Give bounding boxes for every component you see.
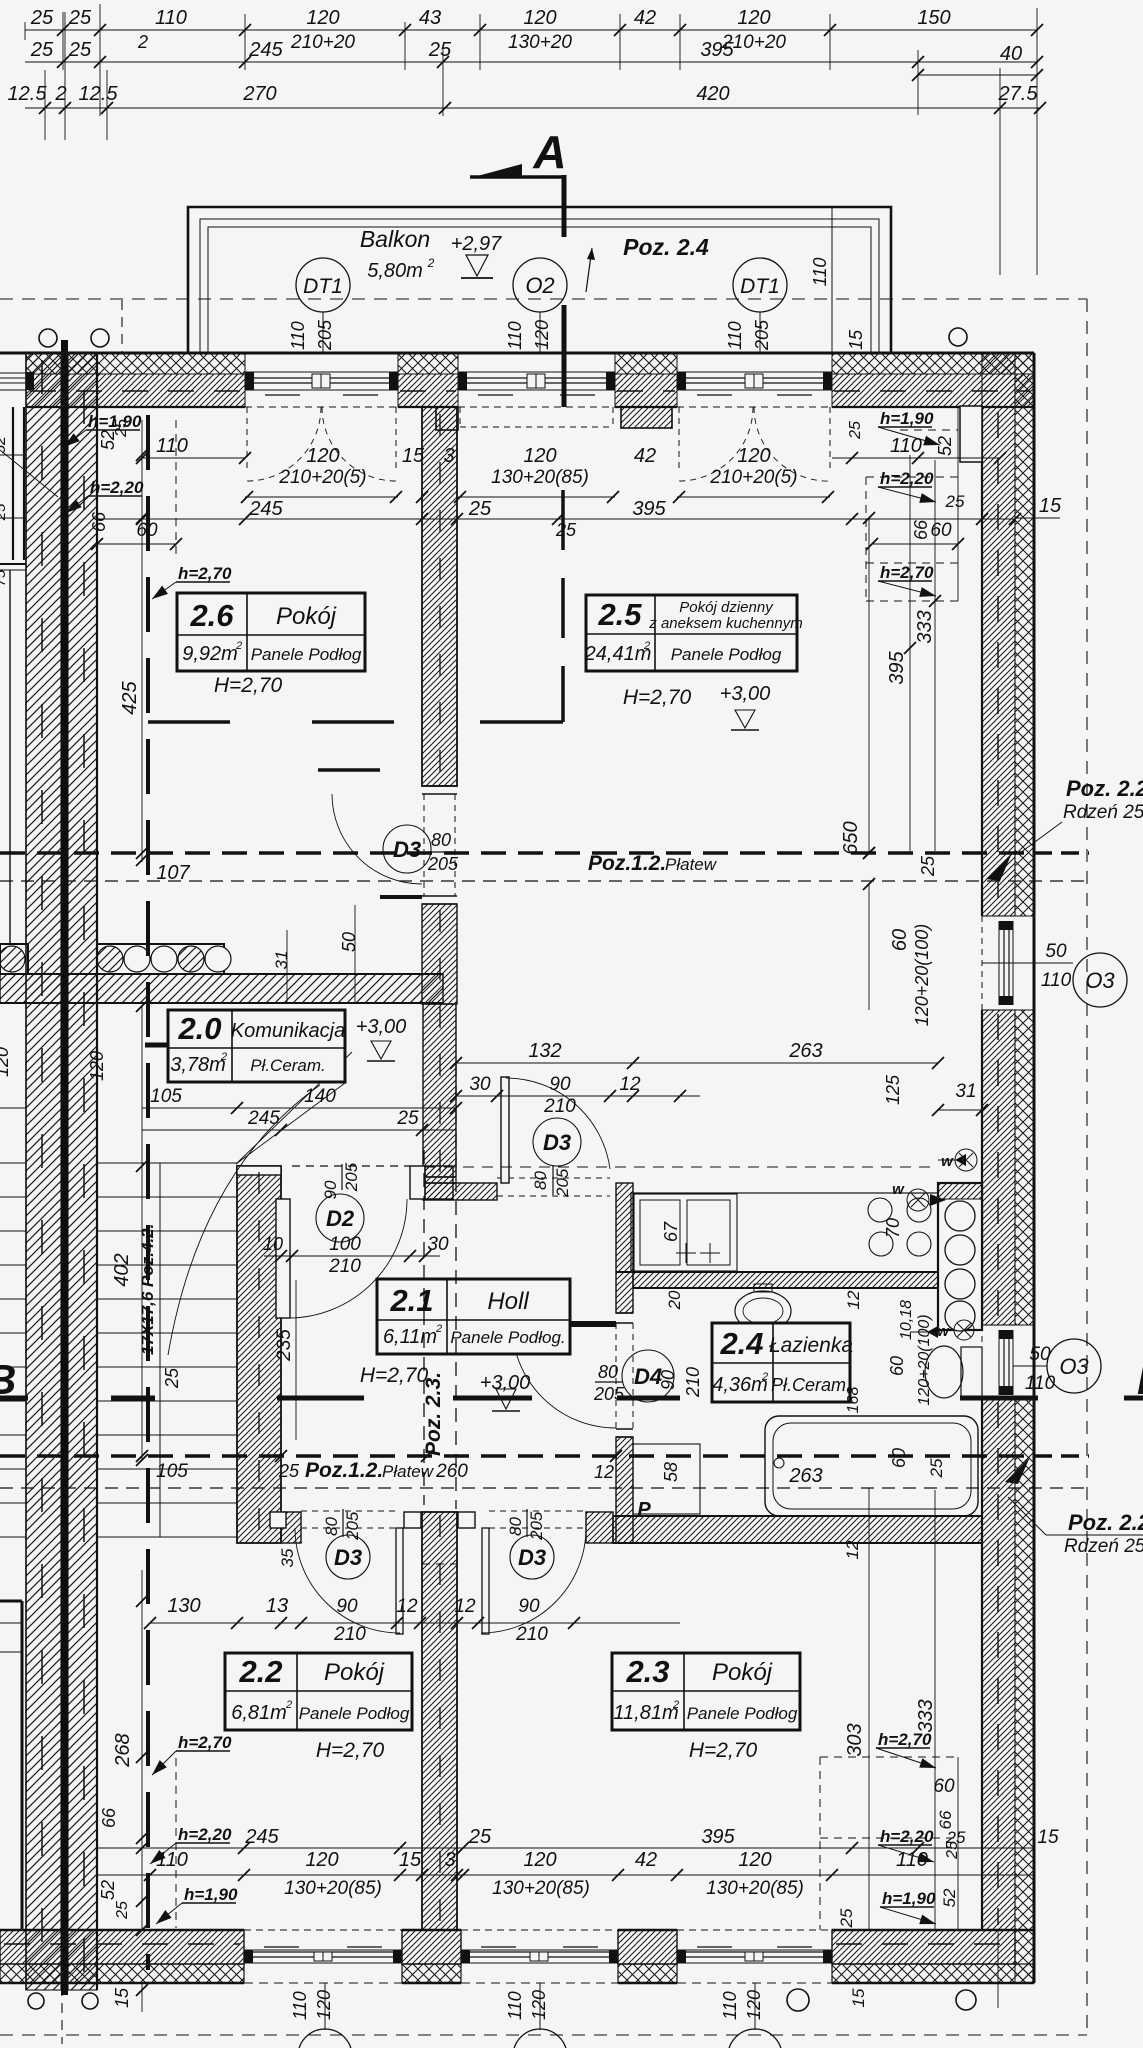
svg-text:210: 210 bbox=[683, 1367, 703, 1398]
svg-text:15: 15 bbox=[1037, 1827, 1059, 1848]
svg-text:130+20(85): 130+20(85) bbox=[491, 467, 589, 488]
svg-text:H=2,70: H=2,70 bbox=[214, 674, 283, 697]
svg-text:h=1,90: h=1,90 bbox=[882, 1889, 936, 1908]
svg-text:+2,97: +2,97 bbox=[451, 233, 502, 255]
window O3 lower symbol bbox=[998, 1330, 1000, 1395]
right dim line 650 bbox=[868, 518, 870, 853]
svg-text:2.2: 2.2 bbox=[238, 1654, 282, 1689]
svg-text:12: 12 bbox=[844, 1290, 863, 1309]
party wall left hatch bbox=[26, 352, 61, 1990]
beam Poz.2.3 dashed lines vertical bbox=[423, 1150, 425, 1505]
svg-text:12.5: 12.5 bbox=[79, 83, 119, 105]
dim row 30 90 12 bbox=[456, 1095, 700, 1097]
right dim line 333 bbox=[934, 460, 936, 851]
svg-text:Poz.1.2.: Poz.1.2. bbox=[588, 852, 666, 875]
svg-text:B: B bbox=[1137, 1356, 1143, 1403]
svg-text:w: w bbox=[892, 1181, 905, 1198]
svg-text:15: 15 bbox=[399, 1849, 422, 1871]
svg-text:h=1,90: h=1,90 bbox=[184, 1885, 238, 1904]
washbasin bbox=[735, 1291, 791, 1331]
svg-text:67: 67 bbox=[661, 1221, 681, 1242]
svg-text:13: 13 bbox=[266, 1595, 288, 1617]
svg-text:Balkon: Balkon bbox=[360, 226, 430, 252]
svg-text:80: 80 bbox=[531, 1171, 550, 1190]
svg-text:90: 90 bbox=[549, 1074, 571, 1095]
svg-text:140: 140 bbox=[304, 1086, 336, 1107]
top dimension extension lines bbox=[62, 12, 64, 70]
window symbol circle DT1 right bbox=[733, 258, 787, 312]
svg-text:Płatew: Płatew bbox=[665, 855, 718, 874]
svg-text:245: 245 bbox=[248, 39, 283, 61]
window DT1 left in top wall bbox=[245, 371, 398, 373]
svg-text:395: 395 bbox=[701, 1826, 735, 1848]
svg-text:D3: D3 bbox=[393, 837, 421, 862]
door D3 to 2.2 opening dashed bbox=[301, 1510, 397, 1512]
svg-text:110: 110 bbox=[156, 435, 188, 457]
svg-text:Pokój: Pokój bbox=[324, 1659, 385, 1686]
neighbour wall face top bbox=[12, 407, 14, 560]
svg-text:205: 205 bbox=[315, 319, 335, 351]
svg-text:2: 2 bbox=[137, 32, 148, 52]
svg-text:132: 132 bbox=[528, 1040, 561, 1062]
svg-text:Płatew: Płatew bbox=[382, 1462, 435, 1481]
top right niche bbox=[960, 406, 982, 462]
poz 2.4 extent tick bbox=[831, 207, 833, 352]
svg-text:105: 105 bbox=[156, 1461, 188, 1482]
svg-text:Poz. 2.4: Poz. 2.4 bbox=[623, 234, 709, 260]
svg-text:10: 10 bbox=[263, 1234, 283, 1254]
svg-text:120: 120 bbox=[737, 445, 770, 467]
svg-text:2: 2 bbox=[761, 1371, 768, 1383]
svg-text:12.5: 12.5 bbox=[8, 83, 48, 105]
svg-text:120: 120 bbox=[0, 1047, 12, 1077]
svg-text:3: 3 bbox=[443, 445, 454, 467]
svg-text:Pokój dzienny: Pokój dzienny bbox=[679, 599, 774, 616]
bottom wall outer edge bbox=[0, 1982, 244, 1985]
svg-text:245: 245 bbox=[248, 498, 283, 520]
neighbour wall lines mid bbox=[0, 563, 26, 565]
top wall pier stub left bbox=[436, 407, 458, 430]
svg-text:2: 2 bbox=[427, 256, 435, 270]
door D3 to 2.3 jamb cap bbox=[458, 1512, 475, 1528]
door D2 opening dashed bbox=[292, 1165, 410, 1167]
entry opening lintel dash bbox=[145, 1043, 194, 1048]
svg-text:210: 210 bbox=[333, 1624, 366, 1645]
svg-text:66: 66 bbox=[99, 1807, 119, 1828]
party wall right hatch bbox=[68, 352, 97, 1990]
svg-text:110: 110 bbox=[156, 1849, 188, 1871]
svg-text:H=2,70: H=2,70 bbox=[689, 1739, 758, 1762]
svg-text:30: 30 bbox=[469, 1074, 491, 1095]
svg-text:130+20(85): 130+20(85) bbox=[284, 1878, 382, 1899]
svg-text:110: 110 bbox=[505, 1991, 525, 2020]
window O3 upper opening dashed bbox=[981, 916, 983, 1010]
svg-text:60: 60 bbox=[889, 929, 911, 951]
balcony slope mark bbox=[586, 248, 592, 292]
svg-text:425: 425 bbox=[119, 680, 141, 714]
svg-text:60: 60 bbox=[887, 1356, 907, 1376]
bottom wall inner face bbox=[0, 1929, 244, 1932]
beam lower lower edge dashed bbox=[0, 1487, 1089, 1489]
svg-text:h=1,90: h=1,90 bbox=[880, 409, 934, 428]
svg-text:25: 25 bbox=[918, 855, 938, 877]
svg-text:25: 25 bbox=[162, 1367, 182, 1389]
svg-text:15: 15 bbox=[112, 1987, 132, 2008]
balcony railing middle bbox=[200, 219, 879, 353]
svg-text:P: P bbox=[637, 1499, 651, 1521]
svg-text:9,92m: 9,92m bbox=[182, 643, 238, 665]
svg-text:Holl: Holl bbox=[487, 1288, 529, 1315]
svg-text:120: 120 bbox=[87, 1051, 107, 1081]
svg-text:H=2,70: H=2,70 bbox=[623, 686, 692, 709]
beam Poz.4.2 dashed thick line bbox=[146, 415, 150, 1970]
svg-text:h=2,20: h=2,20 bbox=[178, 1825, 232, 1844]
balcony door DT1 right swing dashed bbox=[678, 407, 680, 470]
door D4 leaf bbox=[512, 1321, 616, 1327]
svg-text:333: 333 bbox=[915, 1699, 937, 1732]
D2 dims 10 100 30 210 bbox=[264, 1255, 440, 1257]
right dim line 395 bbox=[909, 455, 911, 851]
svg-text:66: 66 bbox=[89, 511, 109, 532]
neighbour dim line bottom bbox=[0, 1622, 22, 1624]
top wall pier stub middle bbox=[621, 407, 672, 428]
svg-text:205: 205 bbox=[342, 1162, 361, 1192]
ventilation flue block kitchen bbox=[938, 1183, 982, 1330]
bathroom south wall bbox=[613, 1516, 982, 1543]
vent pipe circle bottom far right bbox=[956, 1990, 976, 2010]
svg-text:Poz. 2.2: Poz. 2.2 bbox=[1068, 1510, 1143, 1535]
door D3 to 2.2 jamb cap bbox=[404, 1512, 421, 1528]
door D3 to 2.2 swing arc bbox=[295, 1528, 400, 1633]
door D2 leaf bbox=[276, 1199, 290, 1318]
svg-text:210+20(5): 210+20(5) bbox=[709, 467, 797, 488]
top wall inner face bbox=[26, 406, 245, 408]
svg-text:H=2,70: H=2,70 bbox=[316, 1739, 385, 1762]
door D3 opening between 2.6 and 2.5 dashed bbox=[423, 794, 425, 896]
door D3 kitchen leaf bbox=[501, 1077, 509, 1183]
bottom window leader middle-right bbox=[754, 1983, 756, 2030]
svg-text:Pł.Ceram.: Pł.Ceram. bbox=[771, 1375, 851, 1395]
svg-text:D3: D3 bbox=[543, 1130, 571, 1155]
svg-text:205: 205 bbox=[553, 1168, 572, 1198]
svg-text:w: w bbox=[937, 1323, 950, 1340]
svg-text:H=2,70: H=2,70 bbox=[360, 1364, 429, 1387]
symbol circle O3 upper bbox=[1073, 953, 1127, 1007]
svg-text:120: 120 bbox=[305, 1849, 338, 1871]
vent pipe circle top left b bbox=[91, 329, 109, 347]
kitchen sink taps bbox=[676, 1252, 696, 1254]
door D3 to 2.2 leaf bbox=[396, 1528, 403, 1634]
svg-text:25: 25 bbox=[114, 1901, 131, 1920]
window O3 lower opening dashed bbox=[981, 1325, 983, 1398]
svg-text:110: 110 bbox=[720, 1991, 740, 2020]
beam Poz.1.2 Platew upper dashed line bbox=[0, 851, 1034, 855]
svg-text:Pł.Ceram.: Pł.Ceram. bbox=[250, 1056, 326, 1075]
svg-text:Łazienka: Łazienka bbox=[769, 1334, 853, 1357]
holl south wall piece left bbox=[281, 1512, 301, 1543]
svg-text:Poz. 2.2: Poz. 2.2 bbox=[1066, 776, 1143, 801]
bottom dim row windows bbox=[97, 1874, 1034, 1876]
door D4 opening dashed bbox=[615, 1323, 617, 1429]
svg-text:110: 110 bbox=[725, 321, 745, 350]
svg-text:25: 25 bbox=[946, 1828, 966, 1847]
svg-text:110: 110 bbox=[810, 258, 830, 287]
svg-text:120: 120 bbox=[532, 320, 552, 350]
party wall face lines bbox=[25, 352, 27, 1990]
svg-text:395: 395 bbox=[886, 650, 908, 684]
svg-text:h=2,70: h=2,70 bbox=[178, 1733, 232, 1752]
svg-text:A: A bbox=[532, 126, 566, 178]
svg-text:2.4: 2.4 bbox=[719, 1326, 763, 1361]
window in bottom wall left bbox=[244, 1949, 402, 1951]
door circle D4 bbox=[622, 1350, 674, 1402]
site boundary dashed line bottom bbox=[0, 2034, 1087, 2036]
corner wall piece right of D2 bbox=[425, 1166, 453, 1199]
svg-text:D3: D3 bbox=[518, 1545, 546, 1570]
svg-text:3,78m: 3,78m bbox=[170, 1054, 226, 1076]
svg-text:110: 110 bbox=[155, 7, 187, 29]
interior wall texture dashes bbox=[439, 414, 441, 780]
washing machine P bbox=[633, 1444, 700, 1514]
svg-text:Panele Podłog: Panele Podłog bbox=[251, 645, 362, 664]
svg-text:42: 42 bbox=[634, 445, 656, 467]
svg-text:17X17,6 Poz.4.2.: 17X17,6 Poz.4.2. bbox=[138, 1224, 157, 1355]
vent pipe circle top left a bbox=[39, 329, 57, 347]
section line B-B bbox=[0, 1396, 28, 1401]
bathroom north wall bbox=[633, 1272, 938, 1288]
room label 2.6 Pokoj bbox=[177, 593, 365, 671]
room label 2.0 Komunikacja bbox=[168, 1010, 345, 1082]
svg-text:120: 120 bbox=[523, 1849, 556, 1871]
staircase treads neighbour bbox=[0, 1162, 26, 1164]
bottom wall insulation band bbox=[0, 1964, 244, 1983]
vent pipe circle bottom left a bbox=[28, 1993, 44, 2009]
beam Poz.1.2 Platew lower dashed line bbox=[0, 1454, 1034, 1458]
svg-text:210: 210 bbox=[328, 1256, 361, 1277]
right wall inner face bbox=[981, 407, 983, 916]
svg-text:6,11m: 6,11m bbox=[383, 1326, 437, 1348]
vent pipe circle bottom left b bbox=[82, 1993, 98, 2009]
svg-text:130: 130 bbox=[167, 1595, 200, 1617]
bottom wall outer edge dashed at windows bbox=[244, 1982, 402, 1984]
svg-text:245: 245 bbox=[244, 1826, 279, 1848]
svg-text:110: 110 bbox=[896, 1849, 928, 1871]
balcony door DT1 left swing dashed bbox=[246, 407, 248, 470]
svg-text:35: 35 bbox=[278, 1548, 297, 1567]
svg-text:15: 15 bbox=[849, 1988, 868, 2007]
svg-text:58: 58 bbox=[661, 1462, 681, 1482]
svg-text:75: 75 bbox=[0, 569, 9, 586]
vent symbol w lower bbox=[954, 1320, 974, 1340]
top wall outer edge bbox=[0, 352, 1034, 355]
door D3 upper swing arc bbox=[332, 794, 422, 884]
svg-text:2.3: 2.3 bbox=[625, 1654, 669, 1689]
svg-text:w: w bbox=[941, 1153, 954, 1170]
beam crossing arrow upper right bbox=[986, 853, 1012, 881]
svg-text:31: 31 bbox=[955, 1081, 976, 1102]
svg-text:25: 25 bbox=[396, 1108, 419, 1129]
svg-text:25: 25 bbox=[847, 421, 864, 440]
svg-text:50: 50 bbox=[1029, 1344, 1051, 1365]
svg-text:3: 3 bbox=[444, 1849, 455, 1871]
svg-text:Pokój: Pokój bbox=[712, 1659, 773, 1686]
kitchen hob burners bbox=[868, 1198, 892, 1222]
svg-text:Panele Podłog: Panele Podłog bbox=[671, 645, 782, 664]
svg-text:DT1: DT1 bbox=[740, 275, 780, 298]
svg-text:27.5: 27.5 bbox=[998, 83, 1039, 105]
section line A vertical bbox=[562, 175, 567, 237]
top wall masonry band bbox=[26, 374, 245, 407]
svg-text:205: 205 bbox=[427, 854, 459, 874]
svg-text:263: 263 bbox=[788, 1465, 822, 1487]
door D2 jamb right bbox=[410, 1166, 425, 1199]
svg-text:25: 25 bbox=[837, 1908, 856, 1928]
kitchen sink cabinet bbox=[634, 1194, 737, 1271]
svg-text:z aneksem kuchennym: z aneksem kuchennym bbox=[648, 615, 802, 632]
svg-text:Panele Podłog: Panele Podłog bbox=[299, 1704, 410, 1723]
room label 2.3 Pokoj bbox=[612, 1653, 800, 1730]
svg-text:260: 260 bbox=[435, 1461, 468, 1482]
svg-text:25: 25 bbox=[68, 39, 92, 61]
svg-text:D3: D3 bbox=[334, 1545, 362, 1570]
niche room 2.5 dashed bbox=[865, 477, 867, 601]
svg-text:25: 25 bbox=[68, 7, 92, 29]
svg-text:130+20(85): 130+20(85) bbox=[492, 1878, 590, 1899]
neighbour room line bottom bbox=[0, 1651, 22, 1653]
svg-text:43: 43 bbox=[419, 7, 441, 29]
svg-text:2: 2 bbox=[220, 1051, 227, 1063]
svg-text:2.6: 2.6 bbox=[189, 598, 234, 633]
svg-text:66: 66 bbox=[911, 519, 931, 540]
svg-text:25: 25 bbox=[278, 1461, 300, 1481]
section marker A arrow bbox=[470, 164, 522, 178]
svg-text:h=2,20: h=2,20 bbox=[880, 1827, 934, 1846]
room label 2.4 Lazienka bbox=[712, 1323, 850, 1402]
niche room 2.6 dashed bbox=[175, 420, 177, 558]
komunikacja door swing arc bbox=[168, 1085, 320, 1355]
svg-text:110: 110 bbox=[1041, 970, 1072, 991]
svg-text:25: 25 bbox=[113, 419, 130, 438]
svg-text:B: B bbox=[0, 1356, 16, 1403]
vent symbol w upper bbox=[955, 1149, 977, 1171]
svg-text:30: 30 bbox=[427, 1234, 449, 1255]
svg-text:110: 110 bbox=[890, 435, 922, 457]
wall head dashed crossing bbox=[422, 1563, 457, 1565]
svg-text:25: 25 bbox=[30, 7, 54, 29]
door circle D3 to 2.3 bbox=[510, 1535, 554, 1579]
svg-text:+3,00: +3,00 bbox=[356, 1016, 407, 1038]
beam upper tick marks bbox=[136, 847, 148, 859]
svg-text:42: 42 bbox=[635, 1849, 657, 1871]
svg-text:395: 395 bbox=[700, 39, 734, 61]
svg-text:125: 125 bbox=[883, 1074, 903, 1105]
svg-text:105: 105 bbox=[150, 1086, 182, 1107]
svg-text:66: 66 bbox=[936, 1810, 955, 1829]
svg-text:11,81m: 11,81m bbox=[613, 1702, 678, 1724]
door D3 kitchen opening dashed bbox=[497, 1177, 610, 1179]
kitchen counter bbox=[631, 1193, 938, 1272]
svg-text:90: 90 bbox=[336, 1596, 358, 1617]
vent pipe circle bottom right bbox=[787, 1989, 809, 2011]
beam crossing arrow lower right bbox=[1005, 1457, 1030, 1484]
svg-text:25: 25 bbox=[555, 520, 577, 540]
svg-text:80: 80 bbox=[598, 1362, 618, 1382]
svg-text:90: 90 bbox=[658, 1370, 678, 1390]
balcony railing outer bbox=[188, 207, 891, 353]
svg-text:DT1: DT1 bbox=[303, 275, 343, 298]
svg-text:120+20(100): 120+20(100) bbox=[912, 924, 932, 1027]
svg-text:80: 80 bbox=[431, 830, 451, 850]
top dimension line 2 bbox=[25, 61, 1037, 63]
door D2 swing arc bbox=[288, 1199, 407, 1318]
holl south wall piece right bbox=[586, 1512, 613, 1543]
svg-text:52: 52 bbox=[98, 1880, 118, 1900]
party wall black core bbox=[61, 340, 68, 1995]
vent pipe circle top right bbox=[949, 328, 967, 346]
window O2 niche dashed bbox=[459, 407, 461, 427]
svg-text:90: 90 bbox=[321, 1180, 340, 1199]
svg-text:210: 210 bbox=[543, 1096, 576, 1117]
svg-text:130+20(85): 130+20(85) bbox=[706, 1878, 804, 1899]
dim row 132 263 bbox=[456, 1062, 938, 1064]
svg-text:130+20: 130+20 bbox=[508, 32, 572, 53]
svg-text:20: 20 bbox=[665, 1290, 684, 1310]
svg-text:263: 263 bbox=[788, 1040, 822, 1062]
room label 2.2 Pokoj bbox=[225, 1653, 412, 1730]
right lower dim lines bbox=[868, 1488, 870, 1930]
door circle D3 kitchen bbox=[533, 1118, 581, 1166]
svg-text:90: 90 bbox=[518, 1596, 540, 1617]
svg-text:25: 25 bbox=[945, 492, 965, 511]
axis dashed stub bottom-left bbox=[61, 1986, 63, 2044]
svg-text:2: 2 bbox=[285, 1699, 292, 1711]
party wall texture dashes bbox=[41, 360, 43, 1985]
svg-text:25: 25 bbox=[30, 39, 54, 61]
svg-text:110: 110 bbox=[290, 1991, 310, 2020]
window in bottom wall right bbox=[677, 1949, 832, 1951]
svg-text:25: 25 bbox=[468, 1826, 492, 1848]
bottom wall inner face dashed at windows bbox=[244, 1929, 402, 1931]
svg-text:15: 15 bbox=[846, 329, 866, 350]
right wall texture dashes bbox=[997, 412, 999, 912]
lintel bar holl north bbox=[380, 895, 422, 899]
neighbour wall bottom bbox=[0, 1600, 22, 1603]
svg-text:120: 120 bbox=[529, 1990, 549, 2020]
svg-text:168: 168 bbox=[845, 1387, 862, 1414]
door D3 to 2.3 swing arc bbox=[481, 1528, 586, 1633]
svg-text:h=2,20: h=2,20 bbox=[90, 478, 144, 497]
bathroom west wall lower bbox=[616, 1428, 633, 1430]
svg-text:70: 70 bbox=[883, 1218, 903, 1238]
svg-text:650: 650 bbox=[840, 821, 862, 854]
beam dashed line room 2.6 bbox=[148, 720, 422, 724]
svg-text:4,36m: 4,36m bbox=[712, 1374, 768, 1396]
svg-text:60: 60 bbox=[136, 520, 158, 541]
beam line room 2.5 horizontal bbox=[480, 720, 563, 724]
site boundary dashed line top bbox=[0, 298, 1087, 300]
bottom window leader right bbox=[539, 1983, 541, 2030]
symbol circle O3 lower bbox=[1047, 1339, 1101, 1393]
axis dashed stub top-left bbox=[121, 300, 123, 352]
neighbour beam stub bbox=[0, 1107, 26, 1109]
wall between 2.2 and 2.3 bbox=[422, 1512, 457, 1930]
right wall masonry strip bbox=[982, 353, 1015, 916]
svg-text:O3: O3 bbox=[1059, 1354, 1089, 1379]
dim row second y519 bbox=[97, 518, 1015, 520]
svg-text:120: 120 bbox=[738, 1849, 771, 1871]
svg-text:60: 60 bbox=[933, 1776, 955, 1797]
window O3 upper symbol bbox=[998, 921, 1000, 1005]
